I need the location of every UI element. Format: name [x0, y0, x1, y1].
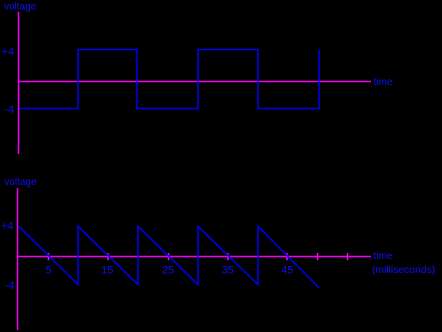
svg-text:+4: +4: [2, 46, 15, 58]
top chart y-axis: [18, 12, 20, 154]
svg-text:35: 35: [222, 265, 234, 277]
tick at 55 ms: [347, 253, 349, 260]
tick at 15 ms: [107, 253, 109, 260]
tick at 45 ms: [286, 253, 288, 260]
svg-text:15: 15: [101, 265, 113, 277]
svg-text:5: 5: [45, 265, 51, 277]
tick at 35 ms: [227, 253, 229, 260]
top chart x-axis (time): [18, 81, 371, 83]
bottom chart x-axis (time): [18, 256, 372, 258]
svg-text:(milliseconds): (milliseconds): [372, 264, 435, 276]
tick at 25 ms: [168, 253, 170, 260]
svg-text:time: time: [374, 77, 393, 88]
svg-text:-4: -4: [5, 280, 15, 292]
bottom chart y-axis: [17, 188, 19, 330]
svg-text:45: 45: [281, 265, 293, 277]
tick at 5 ms: [48, 253, 50, 260]
svg-text:+4: +4: [1, 221, 14, 233]
sawtooth wave: [19, 226, 319, 288]
svg-text:-4: -4: [4, 104, 14, 116]
svg-text:25: 25: [162, 265, 174, 277]
svg-text:voltage: voltage: [4, 2, 37, 13]
svg-text:voltage: voltage: [4, 177, 37, 188]
svg-text:time: time: [374, 251, 393, 262]
square wave: [19, 50, 319, 109]
tick at 50 ms: [317, 253, 319, 260]
